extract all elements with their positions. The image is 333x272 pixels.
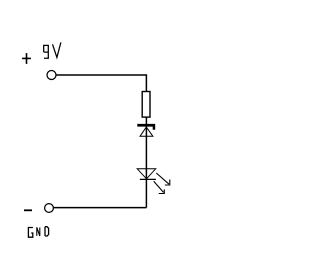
label 9V value bbox=[44, 42, 61, 58]
wire bottom rail to GND terminal bbox=[53, 207, 146, 209]
terminal GND bbox=[45, 204, 54, 213]
resistor R1 bbox=[142, 92, 150, 118]
diode D1 cathode bar bbox=[137, 124, 155, 130]
terminal +9V bbox=[47, 71, 56, 80]
LED arrow 2 bbox=[154, 181, 165, 193]
LED arrow 1 bbox=[156, 173, 170, 185]
LED D2 triangle bbox=[137, 169, 156, 179]
wire from +9V terminal to resistor bbox=[56, 75, 147, 91]
diode D1 triangle bbox=[140, 127, 153, 136]
label plus sign bbox=[22, 53, 31, 64]
LED D2 cathode bar bbox=[140, 178, 156, 180]
label minus sign bbox=[24, 209, 32, 211]
label GND bbox=[28, 227, 48, 238]
wire resistor down through diode and LED to bottom rail bbox=[145, 117, 147, 208]
